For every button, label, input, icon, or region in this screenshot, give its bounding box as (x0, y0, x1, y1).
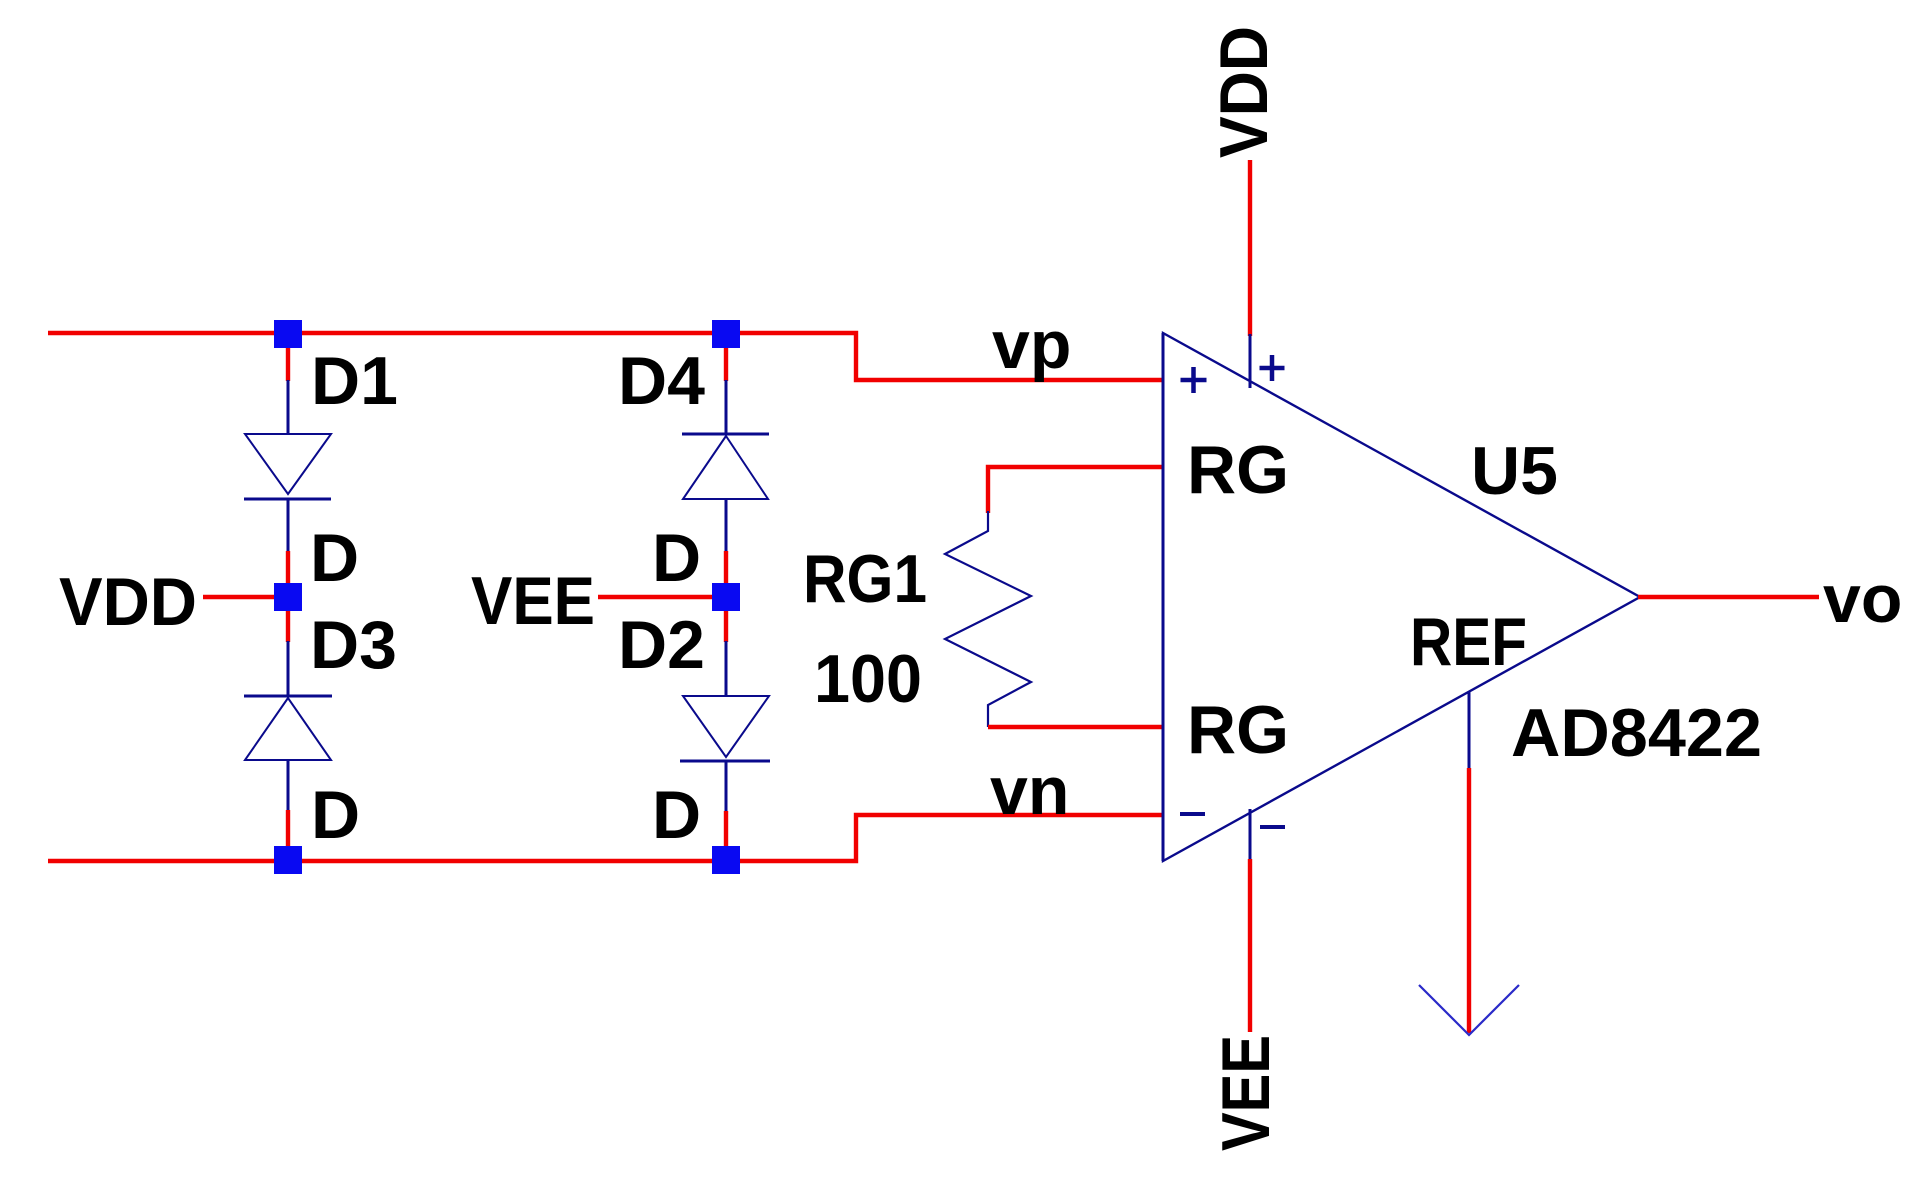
svg-text:D: D (652, 777, 701, 853)
diode D4 (682, 380, 769, 553)
svg-text:VEE: VEE (471, 563, 595, 639)
svg-text:VDD: VDD (59, 564, 197, 640)
wire: vp input net (top rail with step to op-amp + input) (48, 333, 1163, 380)
diode D2 (680, 641, 770, 813)
wire: VEE supply from op-amp (1248, 859, 1252, 1032)
wire: upper RG pin (988, 467, 1163, 513)
svg-text:D1: D1 (311, 343, 398, 419)
wire: VDD feed (203, 595, 288, 599)
junction: bottom-right node (712, 846, 740, 874)
diode D1 (244, 380, 331, 553)
svg-text:REF: REF (1410, 604, 1527, 680)
wire: VDD supply to op-amp (1248, 160, 1252, 336)
op-amp VEE - mark (1260, 825, 1285, 829)
svg-text:D2: D2 (618, 607, 705, 683)
pin stub: REF from op-amp edge (1468, 691, 1471, 770)
svg-text:RG1: RG1 (803, 541, 927, 617)
svg-text:D3: D3 (310, 607, 397, 683)
diode D3 (244, 641, 332, 812)
op-amp VDD + mark (1260, 355, 1285, 381)
svg-text:D: D (310, 520, 359, 596)
svg-text:VDD: VDD (1206, 26, 1282, 158)
junction: top-right node (712, 320, 740, 348)
svg-text:vo: vo (1823, 561, 1902, 637)
ground arrow on REF (1419, 985, 1519, 1035)
svg-text:RG: RG (1187, 432, 1289, 508)
wire: vn input net (bottom rail with step to op-amp - input) (48, 815, 1163, 861)
pin stub: VEE into op-amp (1249, 809, 1252, 861)
resistor RG1 (945, 511, 1031, 727)
op-amp U5 (AD8422 instrumentation amplifier) (1163, 333, 1640, 861)
svg-text:D: D (652, 520, 701, 596)
junction: VDD clamp node (274, 583, 302, 611)
wire: D3 cathode stub (286, 610, 290, 642)
svg-text:U5: U5 (1471, 433, 1558, 509)
svg-text:100: 100 (814, 641, 922, 717)
op-amp + input mark (1181, 367, 1207, 393)
op-amp - input mark (1180, 812, 1205, 816)
wire: D4 anode stub (724, 348, 728, 381)
svg-text:RG: RG (1187, 692, 1289, 768)
svg-text:VEE: VEE (1208, 1035, 1284, 1151)
wire: D1 cathode to VDD node (286, 551, 290, 584)
wire: VEE feed (598, 595, 726, 599)
wire: D4 to VEE node (724, 551, 728, 584)
junction: top-left node (274, 320, 302, 348)
svg-text:D: D (311, 777, 360, 853)
wire: lower RG pin (988, 725, 1163, 729)
junction: VEE clamp node (712, 583, 740, 611)
svg-text:D4: D4 (618, 343, 705, 419)
wire: D1 anode stub (286, 348, 290, 381)
junction: bottom-left node (274, 846, 302, 874)
svg-text:AD8422: AD8422 (1511, 695, 1762, 771)
wire: vo output (1638, 595, 1819, 599)
pin stub: VDD into op-amp (1249, 334, 1252, 388)
wire: D2 cathode stub (724, 610, 728, 642)
svg-text:vn: vn (990, 753, 1069, 829)
wire: D3 anode to bottom node (286, 810, 290, 847)
wire: REF to ground arrow (1467, 768, 1471, 1033)
svg-text:vp: vp (992, 307, 1071, 383)
wire: D2 anode to bottom node (724, 811, 728, 847)
